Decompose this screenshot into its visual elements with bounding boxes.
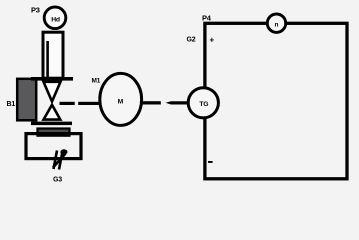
svg-text:P3: P3 [31, 6, 40, 15]
valve bottom flange [31, 122, 72, 126]
svg-text:B1: B1 [7, 101, 16, 108]
wire valve to motor M1 [60, 102, 99, 105]
svg-text:TG: TG [199, 101, 208, 108]
tachogenerator TG [188, 88, 218, 118]
pipe/tube from gauge to valve [43, 32, 63, 78]
tank G3 (box) [26, 134, 81, 159]
motor M1 (ellipse) [100, 73, 142, 125]
shaft motor to TG [142, 101, 187, 104]
svg-text:G3: G3 [53, 177, 62, 184]
svg-text:+: + [210, 36, 215, 45]
dark bar (pipe to tank) [38, 129, 70, 136]
valve top flange [31, 77, 73, 81]
svg-text:n: n [275, 22, 279, 29]
speed meter n (circle) [267, 14, 285, 32]
svg-text:G2: G2 [187, 37, 196, 44]
svg-text:M1: M1 [92, 78, 101, 85]
svg-text:P4: P4 [202, 14, 212, 23]
pressure gauge Hd (circle) [44, 7, 66, 29]
svg-text:M: M [118, 99, 124, 106]
valve body B1 (gray block) [17, 79, 36, 121]
minus terminal [208, 161, 213, 163]
valve bottom triangle [44, 105, 61, 120]
pump symbol G3 [53, 149, 68, 169]
armature circuit loop wire [205, 23, 347, 179]
valve top triangle [44, 82, 61, 102]
svg-text:Hd: Hd [51, 17, 60, 24]
